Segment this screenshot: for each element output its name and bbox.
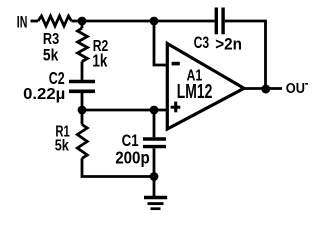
svg-text:IN: IN bbox=[17, 14, 28, 32]
node A junction (R3/R2/top wire) bbox=[78, 17, 87, 26]
wire node D down to C1 bbox=[153, 110, 156, 137]
wire node B2 down to R1 bbox=[81, 110, 84, 125]
wire bottom node to ground bbox=[153, 177, 156, 197]
resistor R2 bbox=[78, 28, 88, 62]
wire C2 to node B2 bbox=[81, 93, 84, 110]
svg-text:LM12: LM12 bbox=[177, 81, 213, 103]
resistor R3 bbox=[38, 16, 72, 26]
node D junction (plus input / C1) bbox=[150, 106, 159, 115]
svg-text:OUT: OUT bbox=[286, 80, 308, 97]
wire node C down to inverting input bbox=[154, 21, 168, 65]
op-amp minus input sign bbox=[172, 62, 180, 66]
capacitor C3 bbox=[216, 8, 223, 35]
svg-text:>2n: >2n bbox=[215, 35, 242, 54]
capacitor C1 bbox=[143, 139, 166, 147]
svg-text:C3: C3 bbox=[194, 33, 210, 52]
wire R1 to bottom wire bbox=[82, 158, 154, 176]
op-amp plus input sign bbox=[171, 102, 181, 113]
wire node B2 to node C (plus input wire) bbox=[82, 109, 168, 112]
wire node C to C3 bbox=[154, 20, 215, 23]
wire node A down to R2 bbox=[81, 21, 84, 28]
node B2 junction (C2/R1/+ wire) bbox=[78, 106, 87, 115]
output node junction bbox=[261, 85, 270, 94]
resistor R1 bbox=[77, 125, 87, 159]
wire op-amp output to OUT bbox=[244, 87, 282, 90]
bottom node junction (R1/C1/ground) bbox=[150, 172, 159, 181]
svg-text:5k: 5k bbox=[43, 46, 59, 65]
svg-text:5k: 5k bbox=[55, 138, 69, 155]
wire R3 to node A bbox=[72, 20, 83, 23]
svg-text:1k: 1k bbox=[92, 50, 107, 70]
wire IN to R3 bbox=[31, 20, 39, 23]
ground bbox=[144, 198, 167, 209]
wire C1 to bottom node bbox=[153, 148, 156, 176]
svg-text:200p: 200p bbox=[115, 148, 150, 168]
capacitor C2 bbox=[69, 82, 95, 92]
op-amp A1 LM12 bbox=[167, 44, 244, 130]
node C junction (top wire to C3 / inverting feed) bbox=[150, 17, 159, 26]
svg-text:0.22µ: 0.22µ bbox=[23, 86, 65, 103]
wire R2 to C2 bbox=[81, 62, 84, 81]
wire C3 to output node (feedback right side) bbox=[225, 21, 266, 89]
wire node A to node B (top wire) bbox=[82, 20, 154, 23]
